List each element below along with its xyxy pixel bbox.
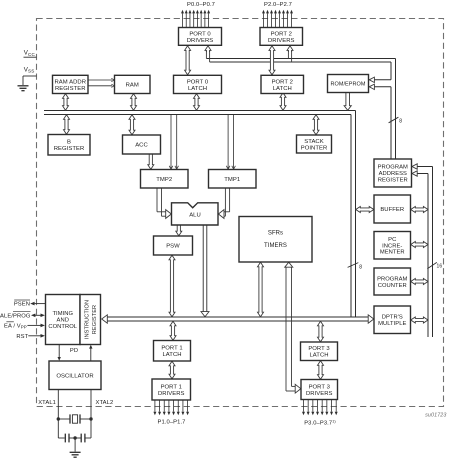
svg-text:OSCILLATOR: OSCILLATOR <box>56 373 93 379</box>
oscillator <box>49 361 101 390</box>
wire: lower internal bus double line <box>107 316 370 318</box>
timing and control <box>46 295 81 345</box>
port 1 pins P1.0-P1.7 <box>154 400 156 412</box>
port 2 latch <box>261 75 304 93</box>
arrow: ram / bus <box>131 94 137 111</box>
node RST (input) <box>28 335 41 337</box>
svg-text:TMP1: TMP1 <box>224 177 240 183</box>
svg-text:ACC: ACC <box>135 143 148 149</box>
port 0 pins P0.0-P0.7 <box>182 13 184 27</box>
wire: xtal1 leg <box>57 390 59 439</box>
arrow: buffer / 16-bit bus <box>411 207 428 213</box>
svg-text:PORT 3LATCH: PORT 3LATCH <box>308 346 330 359</box>
junction node between capacitors <box>73 436 76 439</box>
port 3 latch <box>301 342 338 361</box>
svg-text:STACKPOINTER: STACKPOINTER <box>301 139 328 152</box>
arrow: psw / lower bus <box>169 255 175 317</box>
arrow: port 0 drivers address output (up) <box>205 46 211 52</box>
node ALE/PROG (output + PROG input) <box>34 314 41 316</box>
svg-text:8: 8 <box>399 119 402 125</box>
crystal Y1 <box>58 418 70 420</box>
port 3 pins P3.0-P3.7 <box>303 400 305 412</box>
arrow: acc / bus <box>129 115 135 135</box>
arrow: ram addr register / bus <box>63 94 69 111</box>
ram addr register <box>53 75 89 93</box>
arrow: buffer / internal bus <box>356 207 374 213</box>
port 2 pins P2.0-P2.7 <box>263 13 265 27</box>
capacitor C1 <box>58 437 64 439</box>
ground (Vss) <box>22 76 24 85</box>
arrow: ROM/EPROM to bus (down) <box>344 93 351 111</box>
wire: oscillator clock to instruction register <box>90 349 92 362</box>
psw <box>154 236 193 255</box>
port 2 drivers <box>260 28 303 46</box>
port 0 drivers <box>179 28 222 46</box>
svg-text:BUFFER: BUFFER <box>380 207 404 213</box>
wire: bus to TMP1 (two single lines) <box>227 115 229 169</box>
svg-text:PROGRAMADDRESSREGISTER: PROGRAMADDRESSREGISTER <box>378 165 408 184</box>
svg-text:PORT 1DRIVERS: PORT 1DRIVERS <box>158 384 185 397</box>
stack pointer <box>297 135 332 153</box>
wire: ROM/EPROM address input lines <box>375 79 391 81</box>
arrow: lower bus / port 1 latch <box>170 321 176 340</box>
wire: 16-bit program counter bus (right side vertical) <box>427 174 429 338</box>
arrowhead: lower input into ROM/EPROM <box>369 84 374 89</box>
dptr's multiple <box>374 306 411 334</box>
svg-text:ALU: ALU <box>189 213 201 219</box>
arrow: dptr's multiple / 16-bit bus <box>411 317 428 323</box>
arrow: tmp1 to alu <box>229 188 231 212</box>
svg-text:P3.0–P3.71): P3.0–P3.71) <box>304 419 336 426</box>
svg-text:RAM ADDRREGISTER: RAM ADDRREGISTER <box>55 79 87 92</box>
arrow: port 0 drivers / port 0 latch <box>185 46 191 75</box>
arrow: b register / bus <box>64 115 70 135</box>
wire: RAM ADDR REGISTER to RAM (two thin arrows) <box>88 79 112 81</box>
program counter <box>374 268 411 295</box>
port 3 drivers <box>301 380 338 400</box>
arrowhead: upper input into ROM/EPROM <box>369 77 374 82</box>
wire: bus to TMP2 (two single lines) <box>170 115 172 169</box>
arrow: port 0 latch / bus <box>194 94 200 111</box>
tmp2 <box>141 170 189 189</box>
arrow: lower bus / port 3 latch <box>318 321 324 342</box>
port 1 latch <box>154 341 191 362</box>
arrow: sfrs/timers to port 3 drivers (alternate functions) <box>285 267 287 391</box>
junction node at xtal2 <box>89 417 92 420</box>
svg-text:su01723: su01723 <box>425 413 446 419</box>
sfrs / timers <box>239 217 312 263</box>
pc incrementer <box>374 232 411 260</box>
wire: xtal2 leg <box>90 390 92 439</box>
ram <box>115 75 151 93</box>
svg-text:XTAL2: XTAL2 <box>96 400 114 406</box>
node EA/Vpp (input) <box>27 324 41 326</box>
wire: program/address bus from port drivers to ROM and program address register <box>206 58 395 60</box>
svg-text:INSTRUCTION: INSTRUCTION <box>84 300 90 339</box>
svg-text:XTAL1: XTAL1 <box>38 400 56 406</box>
svg-text:PORT 0LATCH: PORT 0LATCH <box>187 79 209 92</box>
b register <box>48 135 90 156</box>
bus width marker 8 (internal bus vertical) <box>348 263 359 268</box>
bus width marker 16 (program counter bus) <box>427 262 437 268</box>
arrow: port 2 drivers / port 2 latch <box>269 46 275 75</box>
dashed chip boundary <box>37 19 444 407</box>
svg-text:16: 16 <box>437 264 443 270</box>
tmp1 <box>209 170 257 189</box>
arrow: sfrs-timers / lower bus <box>258 262 264 317</box>
wire: timing to oscillator (PD) <box>58 345 60 358</box>
svg-text:P1.0–P1.7: P1.0–P1.7 <box>158 419 186 425</box>
svg-text:RST: RST <box>16 334 28 340</box>
arrow: acc to tmp2 (down) <box>148 154 154 169</box>
svg-text:ALE/PROG: ALE/PROG <box>0 313 31 319</box>
program address register <box>374 159 412 187</box>
ground (crystal) <box>74 438 76 452</box>
arrowheads: bus to TMP2/TMP1 <box>169 166 173 169</box>
arrow: tmp2 to alu <box>156 188 158 212</box>
junction node at xtal1 <box>57 417 60 420</box>
wire: ALU result to lower bus (double line) <box>202 225 204 313</box>
svg-text:P0.0–P0.7: P0.0–P0.7 <box>187 2 215 8</box>
alu (box with notch) <box>172 203 219 225</box>
svg-text:PORT 2LATCH: PORT 2LATCH <box>272 79 293 92</box>
svg-text:PORT 3DRIVERS: PORT 3DRIVERS <box>306 384 333 397</box>
svg-text:EA / VPP: EA / VPP <box>4 324 27 330</box>
bus width marker 8 (program address bus) <box>389 117 399 123</box>
svg-text:REGISTER: REGISTER <box>92 305 98 334</box>
arrowheads: ram addr to ram <box>111 78 114 81</box>
svg-text:RAM: RAM <box>126 83 139 89</box>
svg-text:PORT 1LATCH: PORT 1LATCH <box>161 346 182 359</box>
arrowhead: lower input into program address register <box>412 171 417 176</box>
rom/eprom <box>328 75 369 93</box>
arrow: port 2 latch / bus <box>280 93 286 111</box>
arrow: port 2 drivers address output (up) <box>287 46 293 52</box>
capacitor C2 <box>75 437 81 439</box>
svg-text:ROM/EPROM: ROM/EPROM <box>331 82 366 88</box>
port 1 drivers <box>152 379 191 400</box>
wire: internal data bus (upper), horizontal double line turning down on right <box>44 110 356 112</box>
svg-text:PORT 0DRIVERS: PORT 0DRIVERS <box>187 31 214 44</box>
arrow: alu to psw (down) <box>176 225 182 236</box>
arrow: stack pointer / bus <box>313 115 319 135</box>
svg-text:PORT 2DRIVERS: PORT 2DRIVERS <box>268 31 295 44</box>
arrow: pc incrementer / 16-bit bus <box>411 242 428 248</box>
instruction register (vertical text) <box>80 295 101 345</box>
wire: program address register inputs from 16-bit bus <box>412 166 433 168</box>
buffer <box>374 195 411 223</box>
svg-text:PROGRAMCOUNTER: PROGRAMCOUNTER <box>377 276 407 288</box>
svg-text:8: 8 <box>359 264 362 270</box>
arrow: lower bus into instruction register <box>102 315 108 323</box>
arrowhead: upper input into program address register <box>412 164 417 169</box>
svg-text:P2.0–P2.7: P2.0–P2.7 <box>264 2 292 8</box>
svg-text:DPTR'SMULTIPLE: DPTR'SMULTIPLE <box>378 315 406 327</box>
arrow: lower bus into dptr's multiple <box>368 315 374 323</box>
svg-text:TMP2: TMP2 <box>156 177 172 183</box>
svg-text:PSW: PSW <box>166 244 180 250</box>
svg-text:PD: PD <box>70 348 78 354</box>
svg-text:PSEN: PSEN <box>14 302 30 308</box>
arrow: program counter / 16-bit bus <box>411 279 428 285</box>
node PSEN (output) <box>35 303 46 305</box>
arrowhead: alu output at lower bus <box>201 312 209 317</box>
arrow: port 3 latch / port 3 drivers <box>318 361 324 380</box>
arrow: port 1 latch / port 1 drivers <box>169 361 175 379</box>
acc <box>123 135 161 154</box>
port 0 latch <box>174 75 222 93</box>
